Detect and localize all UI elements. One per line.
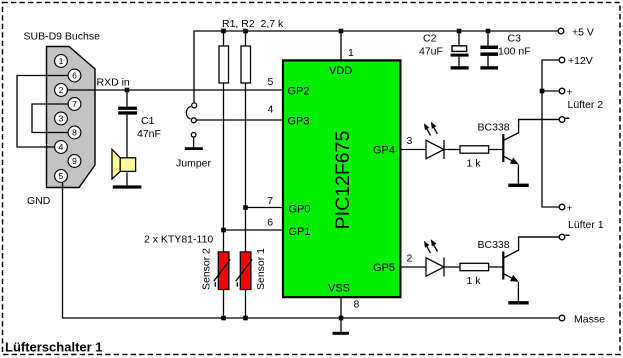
svg-text:+5 V: +5 V (572, 27, 594, 39)
svg-text:Jumper: Jumper (176, 158, 212, 170)
svg-text:GP0: GP0 (289, 203, 311, 215)
svg-text:3: 3 (407, 135, 413, 147)
svg-text:GP2: GP2 (288, 85, 310, 97)
svg-text:+12V: +12V (568, 55, 593, 67)
svg-text:6: 6 (267, 216, 273, 228)
svg-text:1 k: 1 k (467, 158, 482, 170)
svg-text:SUB-D9 Buchse: SUB-D9 Buchse (24, 31, 101, 43)
svg-text:4: 4 (59, 142, 64, 152)
svg-text:Lüfter 1: Lüfter 1 (568, 219, 604, 231)
svg-text:3: 3 (59, 114, 64, 124)
svg-text:C1: C1 (141, 115, 155, 127)
svg-text:100 nF: 100 nF (498, 46, 531, 58)
svg-text:Sensor 1: Sensor 1 (255, 248, 267, 290)
svg-text:Masse: Masse (574, 314, 605, 326)
svg-text:PIC12F675: PIC12F675 (332, 131, 354, 230)
svg-text:7: 7 (72, 99, 77, 109)
svg-text:+: + (567, 87, 573, 99)
svg-text:+: + (567, 203, 573, 215)
svg-text:GP5: GP5 (373, 262, 395, 274)
svg-text:2: 2 (407, 252, 413, 264)
svg-text:9: 9 (72, 156, 77, 166)
svg-text:6: 6 (72, 71, 77, 81)
svg-text:BC338: BC338 (478, 122, 510, 134)
svg-text:Lüfter 2: Lüfter 2 (568, 99, 604, 111)
svg-text:5: 5 (59, 171, 64, 181)
svg-text:VSS: VSS (328, 282, 350, 294)
svg-text:8: 8 (72, 128, 77, 138)
svg-text:GP3: GP3 (288, 115, 310, 127)
svg-text:1: 1 (348, 47, 354, 59)
svg-text:4: 4 (268, 104, 274, 116)
svg-text:47uF: 47uF (419, 46, 443, 58)
svg-text:2 x KTY81-110: 2 x KTY81-110 (144, 233, 213, 245)
svg-text:VDD: VDD (329, 65, 352, 77)
svg-text:Lüfterschalter 1: Lüfterschalter 1 (5, 340, 103, 355)
svg-text:47nF: 47nF (137, 128, 161, 140)
svg-text:8: 8 (354, 299, 360, 311)
svg-text:C3: C3 (508, 33, 522, 45)
svg-text:RXD in: RXD in (97, 77, 130, 89)
svg-text:GP1: GP1 (289, 226, 311, 238)
svg-text:Sensor 2: Sensor 2 (201, 248, 213, 290)
svg-text:7: 7 (267, 195, 273, 207)
svg-text:2: 2 (59, 85, 64, 95)
svg-text:GP4: GP4 (373, 145, 395, 157)
svg-text:C2: C2 (423, 33, 437, 45)
svg-text:1: 1 (59, 56, 64, 66)
svg-text:R1, R2 2,7 k: R1, R2 2,7 k (222, 18, 284, 30)
svg-text:5: 5 (268, 76, 274, 88)
svg-text:GND: GND (27, 195, 51, 207)
